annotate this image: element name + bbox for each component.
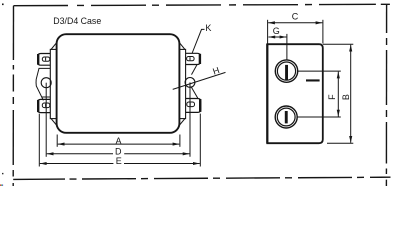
dim A line: [58, 143, 180, 145]
terminal top-left: [38, 54, 51, 66]
dim G line: [268, 36, 286, 38]
stray sheet marks at left edge: [2, 4, 4, 175]
sheet border (phantom dashed frame): [13, 4, 390, 186]
dim B line: [350, 45, 352, 143]
extension line from left hole down (D): [45, 83, 47, 157]
plate corner chamfer lines: [51, 42, 185, 126]
left mounting plate: [50, 49, 57, 118]
svg-text:F: F: [327, 94, 337, 100]
terminal bushing 1 (top): [275, 60, 297, 82]
svg-text:D3/D4 Case: D3/D4 Case: [53, 16, 101, 26]
terminal bottom-left: [38, 99, 51, 112]
svg-text:E: E: [116, 156, 122, 166]
H leader: [173, 72, 226, 89]
dim A extension lines: [57, 135, 180, 147]
terminal top-right: [186, 53, 201, 64]
svg-text:B: B: [341, 94, 351, 100]
dim C line: [268, 22, 322, 24]
dim D line: [47, 153, 190, 155]
dim B extension lines: [323, 44, 353, 143]
K leader: [192, 29, 204, 53]
terminal bushing 2 (bottom): [275, 106, 297, 128]
thick mounting face (left edge): [266, 44, 268, 143]
left bent mounting ear: [36, 68, 50, 100]
filter case body: [57, 34, 180, 133]
dim G extension (terminal centre): [286, 34, 288, 60]
left mounting hole: [41, 78, 51, 88]
dim F line: [337, 72, 339, 117]
right mounting hole: [185, 78, 195, 88]
right mounting plate: [179, 49, 185, 118]
svg-text:G: G: [273, 26, 280, 36]
dim C extension lines: [268, 20, 323, 44]
label mark (black bar): [306, 79, 320, 81]
svg-text:D: D: [115, 146, 122, 156]
terminal bottom-right: [186, 99, 201, 113]
colored specks bottom-left: [0, 185, 3, 186]
extension line from right hole down (D): [189, 82, 191, 156]
dim E extension lines: [39, 114, 200, 167]
svg-text:A: A: [116, 136, 122, 146]
side body outline: [267, 44, 323, 143]
dim F extension lines: [297, 71, 341, 117]
right bent ear edge lines: [191, 65, 198, 99]
svg-text:C: C: [292, 12, 299, 22]
svg-text:K: K: [205, 23, 211, 33]
dim E line: [40, 163, 200, 165]
